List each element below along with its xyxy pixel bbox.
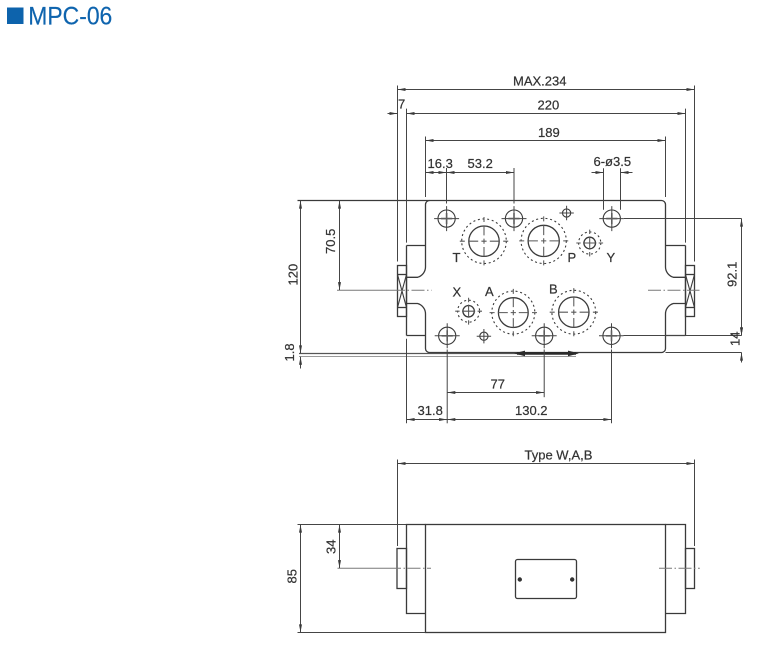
bottom view left tab: [407, 525, 426, 614]
port P cardinal ticks: [519, 216, 568, 265]
dim 1.8 lower outside arrow: [300, 357, 302, 369]
svg-text:X: X: [453, 285, 462, 300]
port B dashed circle: [552, 290, 596, 334]
centerline right dash-dot: [648, 289, 700, 291]
svg-text:16.3: 16.3: [428, 156, 453, 171]
body right edge lower segment with fillet: [662, 304, 686, 353]
bottom view top edge left extension: [298, 524, 426, 526]
port B cardinal ticks: [550, 288, 598, 336]
left bolt box lower square line: [398, 307, 407, 309]
port X cardinal ticks: [455, 298, 482, 325]
ext line 130.2 right at S6: [611, 350, 613, 424]
svg-text:14: 14: [728, 332, 743, 346]
right bolt box upper square line: [686, 274, 695, 276]
mounting face bold segment: [517, 352, 576, 355]
svg-text:120: 120: [286, 264, 301, 286]
port X dashed circle: [458, 300, 480, 322]
locating pin hole bottom: [480, 332, 488, 340]
screw hole S6 bottom-right: [603, 327, 620, 344]
dim line 34: [339, 525, 341, 568]
screw hole S4 bottom-left: [439, 327, 456, 344]
mounting plate bottom edge: [299, 356, 576, 358]
nameplate right rivet: [570, 577, 574, 581]
screw hole S3 top-right: [603, 210, 620, 227]
port P circle: [528, 225, 559, 256]
dim line 130.2: [447, 419, 611, 421]
nameplate: [516, 560, 577, 599]
right bolt box: [686, 266, 695, 317]
dim line 53.2: [447, 172, 514, 174]
screw hole S5 bottom-middle: [536, 327, 553, 344]
centerline left dash-dot: [392, 289, 432, 291]
port X crosshair: [462, 305, 475, 318]
bottom view left bolt rect: [397, 549, 407, 589]
ext line MAX.234 right: [694, 86, 696, 262]
svg-text:92.1: 92.1: [725, 262, 740, 287]
title square bullet: [7, 8, 24, 25]
port Y cardinal ticks: [576, 230, 603, 257]
port A crosshair: [498, 298, 528, 328]
ext line Type left: [397, 460, 399, 547]
port Y dashed circle: [579, 232, 601, 254]
svg-text:189: 189: [538, 125, 560, 140]
right tab outer face: [685, 246, 687, 336]
ext line 220 right: [685, 109, 687, 243]
port Y circle: [584, 237, 596, 249]
right tab bottom edge: [666, 335, 686, 337]
svg-text:B: B: [549, 282, 558, 297]
left bolt X cross: [398, 275, 407, 308]
ext line 92.1 top row: [624, 218, 742, 220]
centerline left solid part: [337, 289, 392, 291]
port B crosshair: [559, 297, 590, 328]
svg-text:53.2: 53.2: [468, 156, 493, 171]
ext line 53.2 right: [513, 168, 515, 204]
bottom view centerline left solid: [338, 567, 389, 569]
bottom view right bolt rect: [686, 549, 695, 589]
svg-text:85: 85: [285, 569, 300, 583]
bottom view body rectangle: [426, 525, 666, 633]
ext line 220/7 left: [406, 109, 408, 243]
svg-text:31.8: 31.8: [418, 403, 443, 418]
left bolt box: [398, 266, 407, 317]
dim line 189: [426, 140, 666, 142]
dim line 31.8: [407, 419, 447, 421]
port P dashed circle: [521, 218, 566, 263]
port T crosshair: [469, 226, 500, 257]
svg-text:T: T: [453, 250, 461, 265]
left bolt box upper square line: [398, 274, 407, 276]
right bolt box lower square line: [686, 307, 695, 309]
dim line 220: [407, 113, 686, 115]
ext line 189 left: [425, 137, 427, 198]
port A cardinal ticks: [490, 289, 537, 336]
dim line 85: [300, 525, 302, 633]
bottom view right tab: [666, 525, 686, 614]
left tab bottom edge: [407, 335, 426, 337]
ext line 14 bottom: [666, 352, 742, 354]
svg-text:P: P: [568, 250, 577, 265]
body top edge with left extension: [298, 200, 662, 202]
port A circle: [498, 298, 528, 328]
svg-text:77: 77: [491, 377, 505, 392]
screw hole S1 top-left: [438, 210, 455, 227]
svg-text:Y: Y: [607, 250, 616, 265]
dim line MAX.234: [398, 89, 695, 91]
ext line 31.8 left: [406, 339, 408, 424]
svg-text:34: 34: [324, 540, 339, 554]
dim line 120: [300, 201, 302, 354]
screw hole S2 top-middle: [505, 210, 522, 227]
svg-text:MPC-06: MPC-06: [28, 2, 112, 30]
body bottom edge: [430, 352, 662, 354]
mounting face left arrowhead: [514, 351, 525, 357]
locating pin hole top: [563, 209, 571, 217]
svg-text:A: A: [485, 284, 494, 299]
svg-text:1.8: 1.8: [282, 343, 297, 361]
dim line 16.3: [426, 172, 447, 174]
left tab outer face: [406, 246, 408, 336]
right bolt X cross: [686, 275, 695, 308]
6-d3.5 left arrow: [592, 172, 604, 174]
ext line 189 right: [665, 137, 667, 198]
ext line Type right: [694, 460, 696, 547]
svg-text:MAX.234: MAX.234: [513, 74, 566, 89]
ext line 16.3 right / 53.2 left: [446, 168, 448, 204]
port B circle: [559, 297, 589, 327]
svg-text:6-ø3.5: 6-ø3.5: [594, 154, 632, 169]
svg-text:220: 220: [538, 98, 560, 113]
dim 14 upper outside arrow: [741, 326, 743, 335]
body left edge lower segment with fillet: [407, 304, 430, 353]
port A dashed circle: [492, 291, 535, 334]
svg-text:130.2: 130.2: [515, 403, 548, 418]
right tab top edge: [666, 245, 686, 247]
svg-text:70.5: 70.5: [323, 229, 338, 254]
bottom view centerline left dash-dot: [388, 567, 431, 569]
left tab top edge: [407, 245, 426, 247]
port T circle: [469, 226, 499, 256]
ext line 77 right at S5: [543, 350, 545, 398]
body left edge upper segment with fillet into notch: [407, 201, 430, 278]
nameplate left rivet: [518, 577, 522, 581]
dim line 70.5: [339, 201, 341, 290]
6-d3.5 tangent line left: [603, 168, 605, 210]
dim line 77: [447, 392, 544, 394]
port Y crosshair: [583, 236, 596, 249]
mounting plate top edge (1.8 plate): [299, 353, 517, 355]
dim 14 lower outside arrow: [741, 353, 743, 363]
svg-text:Type W,A,B: Type W,A,B: [525, 447, 593, 462]
port X circle: [463, 306, 474, 317]
port T dashed circle: [462, 219, 507, 264]
body right edge upper segment with fillet: [662, 201, 686, 278]
dim 7 outside arrow: [388, 113, 398, 115]
port P crosshair: [528, 225, 559, 256]
bottom view bottom edge left extension: [298, 632, 426, 634]
6-d3.5 right arrow: [621, 172, 633, 174]
bottom view centerline right dash-dot: [659, 567, 700, 569]
svg-text:7: 7: [398, 97, 405, 112]
6-d3.5 tangent line right: [620, 168, 622, 210]
ext line 77/31.8/130.2 at S4: [446, 350, 448, 424]
ext line 92.1 bottom row: [624, 335, 742, 337]
dim line Type W,A,B: [398, 463, 695, 465]
dim line 92.1: [741, 219, 743, 336]
mounting face right arrowhead: [568, 351, 579, 357]
ext line MAX.234 left: [397, 86, 399, 262]
port T cardinal ticks: [460, 217, 508, 265]
